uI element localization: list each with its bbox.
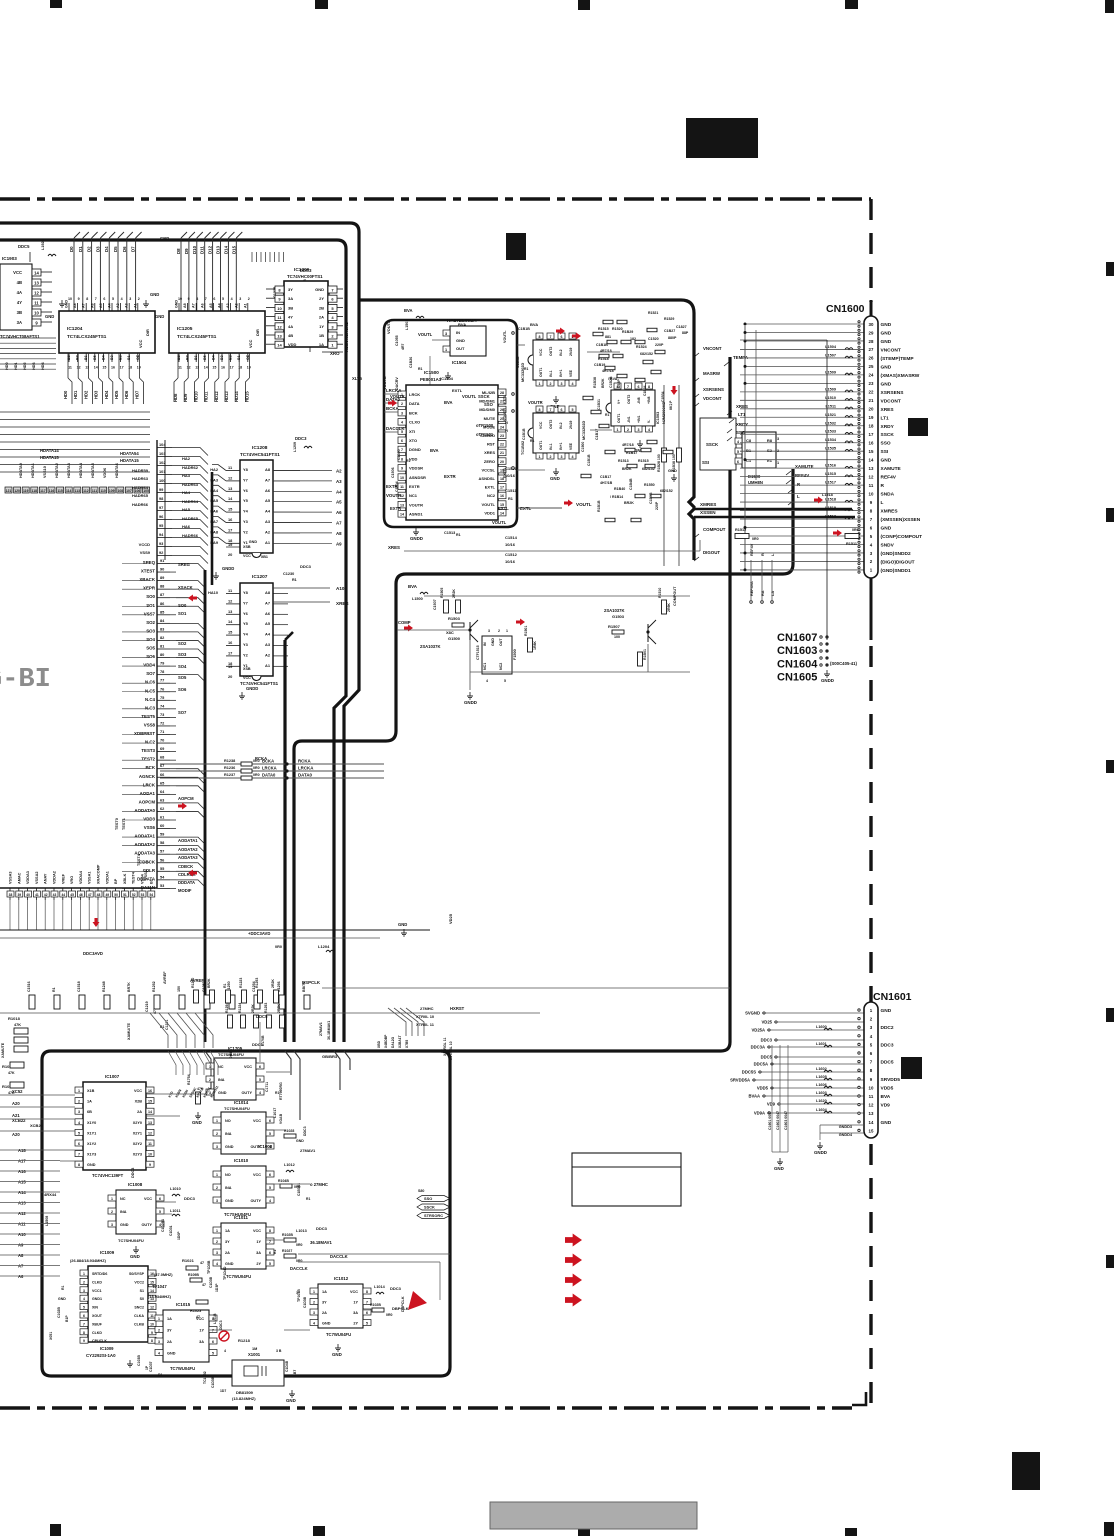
svg-text:TC74VHC541FTS1: TC74VHC541FTS1: [240, 452, 280, 457]
svg-text:21: 21: [869, 398, 874, 403]
svg-text:1D7: 1D7: [220, 1389, 226, 1393]
svg-text:C1516: C1516: [27, 981, 31, 992]
svg-text:L1012: L1012: [284, 1163, 295, 1167]
svg-text:HADR63: HADR63: [132, 476, 149, 481]
svg-text:R102B: R102B: [282, 1233, 293, 1237]
svg-text:R1B40: R1B40: [614, 487, 625, 491]
svg-text:R1018: R1018: [8, 1016, 21, 1021]
svg-text:1: 1: [216, 1229, 218, 1233]
svg-text:A6: A6: [265, 611, 271, 616]
svg-text:12: 12: [869, 474, 874, 479]
svg-text:IC1015: IC1015: [176, 1302, 191, 1307]
svg-text:GND: GND: [491, 638, 495, 646]
svg-text:VCC: VCC: [539, 348, 543, 356]
svg-text:CLXO: CLXO: [409, 420, 420, 425]
svg-text:EXTL: EXTL: [520, 506, 532, 511]
svg-text:HADR59: HADR59: [132, 468, 149, 473]
svg-text:GND: GND: [881, 330, 892, 336]
svg-text:D12: D12: [208, 245, 213, 254]
svg-text:X1Y2: X1Y2: [87, 1142, 96, 1146]
svg-text:MUTE: MUTE: [484, 416, 496, 421]
svg-text:VSSA3: VSSA3: [9, 872, 13, 884]
svg-text:22: 22: [500, 443, 504, 447]
svg-text:PE8001A1: PE8001A1: [420, 377, 442, 382]
svg-text:GNDD4: GNDD4: [839, 1133, 853, 1137]
svg-text:R1: R1: [524, 367, 528, 371]
svg-text:29: 29: [869, 330, 874, 335]
svg-text:VCC: VCC: [244, 1065, 252, 1069]
svg-text:A1: A1: [243, 303, 247, 308]
svg-text:3: 3: [401, 411, 403, 415]
svg-text:RA: RA: [761, 590, 765, 596]
svg-text:R1501: R1501: [524, 626, 528, 636]
svg-text:EXTL: EXTL: [503, 394, 507, 404]
svg-text:L1620: L1620: [816, 1099, 827, 1103]
svg-text:GNDD3: GNDD3: [839, 1125, 852, 1129]
svg-text:DDC2: DDC2: [881, 1025, 894, 1031]
svg-text:1: 1: [83, 1272, 85, 1276]
svg-text:9: 9: [78, 297, 80, 301]
svg-text:17: 17: [230, 366, 234, 370]
svg-text:COMPOUT: COMPOUT: [703, 527, 726, 532]
svg-text:7: 7: [212, 1329, 214, 1333]
svg-text:8: 8: [648, 385, 650, 389]
svg-text:TEST4: TEST4: [137, 853, 141, 866]
svg-text:1: 1: [296, 1291, 298, 1295]
svg-text:2N19: 2N19: [569, 348, 573, 356]
svg-text:12: 12: [277, 324, 282, 329]
svg-text:13: 13: [869, 466, 874, 471]
svg-text:IC1008: IC1008: [128, 1182, 143, 1187]
svg-text:A1: A1: [265, 540, 271, 545]
svg-text:CLKB: CLKB: [134, 1322, 144, 1326]
svg-text:47K: 47K: [8, 1091, 15, 1095]
svg-text:5: 5: [222, 297, 224, 301]
svg-text:27MHC: 27MHC: [420, 1006, 434, 1011]
svg-text:HD2: HD2: [23, 362, 27, 370]
svg-text:UMH8N: UMH8N: [748, 480, 763, 485]
svg-text:0R0: 0R0: [253, 773, 260, 777]
svg-text:CDBCK: CDBCK: [178, 864, 193, 869]
svg-text:2N19: 2N19: [569, 421, 573, 429]
svg-text:6: 6: [159, 1197, 161, 1201]
svg-text:E1: E1: [767, 458, 773, 463]
svg-text:IC1008: IC1008: [258, 1144, 273, 1149]
svg-text:XSSEN: XSSEN: [700, 510, 716, 515]
svg-text:XSB: XSB: [243, 667, 251, 671]
svg-text:HA6: HA6: [182, 524, 191, 529]
svg-text:8: 8: [86, 297, 88, 301]
svg-text:2: 2: [78, 1100, 80, 1104]
svg-text:L: L: [797, 494, 800, 499]
svg-text:CLKD: CLKD: [92, 1280, 102, 1284]
svg-text:A5: A5: [336, 500, 342, 505]
svg-text:4: 4: [224, 1349, 226, 1353]
svg-text:VD9: VD9: [881, 1103, 891, 1109]
svg-text:VEE: VEE: [569, 442, 573, 450]
svg-text:A2: A2: [336, 469, 342, 474]
svg-text:3Y: 3Y: [322, 1301, 327, 1305]
svg-text:A13: A13: [18, 1201, 26, 1206]
svg-text:117: 117: [40, 489, 46, 493]
svg-text:DDC3: DDC3: [295, 436, 307, 441]
svg-text:46: 46: [79, 893, 83, 897]
svg-text:EXTL: EXTL: [452, 388, 463, 393]
svg-text:1: 1: [313, 1290, 315, 1294]
svg-text:XRES: XRES: [881, 407, 895, 413]
svg-text:L1518: L1518: [822, 493, 833, 497]
svg-text:XBLK: XBLK: [123, 873, 127, 884]
svg-text:3A: 3A: [199, 1340, 204, 1344]
svg-text:1Y: 1Y: [319, 324, 324, 329]
svg-text:A2: A2: [265, 652, 271, 657]
svg-text:L170B: L170B: [261, 1035, 265, 1046]
svg-text:VOUTL: VOUTL: [386, 320, 391, 334]
svg-text:VCC2: VCC2: [134, 1280, 144, 1284]
svg-text:20: 20: [869, 407, 874, 412]
svg-text:VOUTR: VOUTR: [409, 502, 423, 507]
svg-text:12: 12: [148, 1131, 152, 1135]
svg-text:LA: LA: [771, 591, 775, 596]
svg-text:50: 50: [114, 893, 118, 897]
svg-text:GND: GND: [286, 1398, 296, 1403]
svg-text:0R0: 0R0: [296, 1243, 302, 1247]
svg-text:HDATA15: HDATA15: [40, 455, 59, 460]
svg-text:INA: INA: [218, 1078, 225, 1082]
svg-text:682/152: 682/152: [640, 352, 653, 356]
svg-text:MD/DM0: MD/DM0: [479, 407, 496, 412]
svg-text:HA9: HA9: [210, 540, 219, 545]
svg-text:X2B: X2B: [135, 1100, 143, 1104]
svg-text:2R2K: 2R2K: [452, 589, 456, 598]
svg-text:D11: D11: [200, 246, 205, 254]
svg-text:1: 1: [617, 428, 619, 432]
svg-text:A6: A6: [336, 510, 342, 515]
svg-text:VDD4: VDD4: [143, 663, 155, 668]
svg-text:VDDA4: VDDA4: [79, 870, 83, 884]
svg-text:HDATA54: HDATA54: [120, 451, 139, 456]
svg-text:SSCK: SSCK: [424, 1205, 435, 1210]
svg-text:3Y: 3Y: [225, 1240, 230, 1244]
svg-text:DIGOUT: DIGOUT: [703, 550, 720, 555]
svg-text:R1550: R1550: [644, 483, 655, 487]
svg-text:16: 16: [148, 1089, 152, 1093]
svg-text:C1514: C1514: [505, 535, 518, 540]
svg-text:INA: INA: [225, 1132, 232, 1136]
svg-text:70: 70: [160, 738, 164, 743]
svg-text:XTR0L 10: XTR0L 10: [416, 1014, 435, 1019]
svg-text:8: 8: [366, 1290, 368, 1294]
svg-text:NC2: NC2: [487, 493, 496, 498]
svg-text:2: 2: [83, 1280, 85, 1284]
svg-text:BR2K: BR2K: [601, 378, 605, 388]
svg-text:HA2: HA2: [210, 467, 219, 472]
svg-text:2: 2: [216, 1186, 218, 1190]
svg-text:VSSA2: VSSA2: [35, 872, 39, 884]
svg-text:A8: A8: [265, 590, 271, 595]
svg-text:19: 19: [137, 366, 141, 370]
svg-text:VNCONT: VNCONT: [881, 347, 901, 353]
svg-text:C1520: C1520: [648, 337, 659, 341]
svg-text:VDCONT: VDCONT: [881, 398, 901, 404]
svg-text:X1Y1: X1Y1: [87, 1131, 96, 1135]
svg-text:6: 6: [78, 1142, 80, 1146]
svg-text:BCK: BCK: [145, 765, 155, 770]
svg-text:HA5: HA5: [182, 507, 191, 512]
svg-text:ASND1: ASND1: [409, 512, 423, 517]
svg-text:4: 4: [121, 297, 123, 301]
svg-text:C1601 0047: C1601 0047: [768, 1111, 772, 1130]
svg-text:8: 8: [151, 1339, 153, 1343]
svg-text:HDATA3: HDATA3: [67, 463, 71, 478]
svg-text:D13: D13: [216, 245, 221, 254]
svg-text:STRSORC: STRSORC: [424, 1213, 443, 1218]
svg-text:NC1: NC1: [409, 493, 418, 498]
svg-text:7: 7: [269, 1240, 271, 1244]
svg-text:X1TRGL 11: X1TRGL 11: [443, 1038, 447, 1056]
svg-text:DATA: DATA: [409, 401, 420, 406]
svg-text:C1B54: C1B54: [643, 385, 647, 396]
svg-text:11: 11: [869, 1094, 874, 1099]
svg-text:HADR64: HADR64: [132, 485, 149, 490]
svg-text:GND: GND: [225, 1199, 234, 1203]
svg-text:C1B1B: C1B1B: [516, 356, 520, 368]
svg-text:IC1903: IC1903: [2, 256, 17, 261]
svg-text:R1B1B: R1B1B: [597, 500, 601, 512]
svg-text:DDC5S: DDC5S: [742, 1070, 756, 1075]
svg-text:A8: A8: [18, 1253, 24, 1258]
svg-text:S0/SYSP: S0/SYSP: [129, 1272, 145, 1276]
svg-text:GND: GND: [160, 236, 169, 241]
svg-text:GND: GND: [322, 1322, 331, 1326]
svg-text:GND: GND: [58, 1297, 66, 1301]
svg-text:11: 11: [178, 366, 182, 370]
svg-text:A5: A5: [209, 303, 213, 308]
svg-text:XAMU/TE: XAMU/TE: [127, 1022, 131, 1040]
svg-text:+IN8: +IN8: [647, 396, 651, 404]
svg-text:(26.884/18.934MHZ): (26.884/18.934MHZ): [70, 1258, 107, 1263]
svg-text:A1: A1: [265, 663, 271, 668]
svg-text:R1223: R1223: [239, 978, 243, 988]
svg-text:6: 6: [561, 335, 563, 339]
svg-text:GND: GND: [398, 922, 407, 927]
svg-text:A10: A10: [336, 586, 345, 591]
svg-text:IN+1: IN+1: [559, 442, 563, 450]
svg-text:10: 10: [150, 1322, 154, 1326]
svg-text:BVA: BVA: [444, 400, 453, 405]
svg-text:LRCKA: LRCKA: [298, 766, 314, 771]
svg-text:NO: NO: [225, 1173, 231, 1177]
svg-text:(STEMP)TEMP: (STEMP)TEMP: [881, 356, 915, 362]
svg-text:SRTD/D6: SRTD/D6: [92, 1272, 107, 1276]
svg-text:121: 121: [6, 489, 12, 493]
svg-text:15: 15: [148, 1100, 152, 1104]
svg-text:1M: 1M: [252, 1347, 257, 1351]
svg-text:R1B38: R1B38: [593, 377, 597, 388]
svg-text:SNDA: SNDA: [881, 492, 895, 498]
svg-text:TEST1: TEST1: [122, 818, 126, 830]
svg-text:R1513: R1513: [618, 459, 629, 463]
svg-text:R1511: R1511: [846, 542, 857, 546]
svg-text:CLKD: CLKD: [92, 1331, 102, 1335]
svg-text:17: 17: [500, 486, 504, 490]
svg-text:4H7/1B: 4H7/1B: [600, 481, 613, 485]
svg-text:SO0: SO0: [178, 603, 187, 608]
svg-text:C1500: C1500: [581, 442, 585, 452]
svg-text:7: 7: [366, 1301, 368, 1305]
svg-text:54: 54: [149, 893, 153, 897]
svg-text:VD9: VD9: [767, 1102, 776, 1107]
svg-text:8: 8: [83, 1331, 85, 1335]
svg-text:VD25: VD25: [762, 1020, 773, 1025]
svg-text:A6: A6: [90, 303, 94, 308]
svg-text:47K: 47K: [8, 1071, 15, 1075]
svg-text:R1: R1: [158, 1373, 162, 1377]
svg-text:R1512: R1512: [735, 528, 746, 532]
svg-text:Y8: Y8: [243, 467, 249, 472]
svg-text:3 B: 3 B: [276, 1349, 282, 1353]
svg-text:X7B5: X7B5: [405, 1040, 409, 1048]
svg-text:C102B: C102B: [57, 1307, 61, 1318]
svg-text:S1: S1: [140, 1289, 144, 1293]
svg-text:IN: IN: [483, 642, 487, 646]
svg-text:XRDY: XRDY: [736, 422, 748, 427]
svg-text:18: 18: [869, 424, 874, 429]
svg-text:27MAV1: 27MAV1: [319, 1022, 323, 1036]
svg-text:DB81509: DB81509: [236, 1390, 254, 1395]
svg-text:VSS9: VSS9: [140, 550, 151, 555]
svg-text:BVA: BVA: [404, 308, 413, 313]
svg-text:NO: NO: [225, 1119, 231, 1123]
svg-text:(DIGO)DIGOUT: (DIGO)DIGOUT: [881, 559, 915, 565]
svg-text:HD7: HD7: [134, 390, 139, 399]
svg-text:27MAV1: 27MAV1: [300, 1148, 316, 1153]
svg-text:RST: RST: [487, 442, 496, 447]
svg-text:R1524: R1524: [636, 345, 647, 349]
svg-text:44: 44: [61, 893, 65, 897]
svg-text:AODA1: AODA1: [140, 791, 156, 796]
svg-text:L1604: L1604: [816, 1108, 828, 1112]
svg-text:AOPCM: AOPCM: [139, 799, 156, 804]
svg-text:REF4V: REF4V: [750, 543, 754, 556]
svg-text:5: 5: [159, 1210, 161, 1214]
svg-text:MC33202D: MC33202D: [521, 363, 525, 382]
svg-text:6: 6: [638, 385, 640, 389]
svg-text:GND: GND: [167, 1352, 176, 1356]
svg-text:SO2: SO2: [146, 620, 155, 625]
svg-text:VCC: VCC: [253, 1229, 261, 1233]
svg-text:LT1: LT1: [881, 415, 890, 421]
svg-text:Y4: Y4: [243, 632, 249, 637]
svg-text:C1D31: C1D31: [169, 1225, 173, 1236]
svg-text:52: 52: [132, 893, 136, 897]
svg-text:C1D3B: C1D3B: [209, 1276, 213, 1288]
svg-text:(CONP)COMPOUT: (CONP)COMPOUT: [881, 534, 923, 540]
svg-text:HDATA14: HDATA14: [40, 448, 59, 453]
svg-text:7: 7: [401, 448, 403, 452]
svg-text:AODATA2: AODATA2: [178, 847, 198, 852]
svg-text:TC7WU04FU: TC7WU04FU: [170, 1366, 195, 1371]
svg-text:XRACOMP: XRACOMP: [97, 864, 101, 884]
svg-text:3Y: 3Y: [288, 287, 293, 292]
svg-text:DATA0: DATA0: [298, 773, 313, 778]
svg-text:4: 4: [486, 679, 488, 683]
svg-text:GND: GND: [120, 1223, 129, 1227]
svg-text:A2: A2: [235, 303, 239, 308]
svg-text:28: 28: [869, 339, 874, 344]
svg-text:SNC2: SNC2: [134, 1306, 144, 1310]
svg-text:EXTL: EXTL: [498, 506, 509, 511]
svg-text:HD0: HD0: [63, 390, 68, 399]
svg-text:XSACK: XSACK: [178, 585, 193, 590]
svg-text:41: 41: [35, 893, 39, 897]
svg-text:IC1014: IC1014: [234, 1100, 249, 1105]
svg-text:R1B29: R1B29: [622, 330, 633, 334]
svg-text:C1B1B: C1B1B: [587, 454, 591, 466]
svg-text:Y8: Y8: [243, 590, 249, 595]
svg-text:VOUTR: VOUTR: [386, 493, 402, 498]
svg-text:2: 2: [138, 297, 140, 301]
svg-text:AODATA1: AODATA1: [134, 834, 155, 839]
svg-text:IC1012: IC1012: [334, 1276, 349, 1281]
svg-text:1: 1: [216, 1119, 218, 1123]
svg-text:VDCONT: VDCONT: [703, 396, 722, 401]
svg-text:17: 17: [228, 527, 232, 532]
svg-text:C1602 0047: C1602 0047: [776, 1111, 780, 1130]
svg-text:INA: INA: [225, 1186, 232, 1190]
svg-text:OUT1: OUT1: [539, 441, 543, 450]
svg-text:DDC3AVD: DDC3AVD: [83, 951, 103, 956]
svg-text:IC1500: IC1500: [424, 370, 439, 375]
svg-text:DDDATA: DDDATA: [178, 880, 195, 885]
svg-text:VDDA3: VDDA3: [26, 871, 30, 884]
svg-text:C1B34: C1B34: [661, 391, 665, 402]
svg-text:12: 12: [187, 366, 191, 370]
svg-text:6: 6: [561, 408, 563, 412]
svg-text:GND: GND: [881, 381, 892, 387]
svg-text:TEST0: TEST0: [115, 818, 119, 830]
svg-text:R1: R1: [508, 497, 513, 501]
svg-text:RCKA: RCKA: [298, 759, 312, 764]
svg-text:5: 5: [269, 1262, 271, 1266]
svg-text:HDATA15: HDATA15: [120, 458, 139, 463]
svg-text:X2BA1T: X2BA1T: [398, 1035, 402, 1048]
svg-text:DDC5: DDC5: [761, 1055, 773, 1060]
svg-text:15: 15: [869, 1128, 874, 1133]
svg-text:VOUTL: VOUTL: [418, 332, 433, 337]
svg-text:LRCKA: LRCKA: [386, 388, 402, 393]
svg-text:OUTY: OUTY: [250, 1199, 261, 1203]
svg-text:IC1010: IC1010: [234, 1158, 249, 1163]
svg-text:A6: A6: [18, 1274, 24, 1279]
svg-text:3: 3: [445, 332, 447, 336]
svg-text:C1511: C1511: [505, 488, 517, 493]
svg-text:9: 9: [188, 297, 190, 301]
svg-text:1A: 1A: [87, 1100, 92, 1104]
svg-text:HA4: HA4: [210, 488, 219, 493]
svg-text:XAMUTE: XAMUTE: [1, 1042, 5, 1058]
svg-text:R1028: R1028: [284, 1129, 294, 1133]
svg-text:3B: 3B: [288, 305, 293, 310]
svg-text:0R0: 0R0: [296, 1259, 302, 1263]
svg-text:DGND: DGND: [409, 447, 421, 452]
svg-text:MASRW: MASRW: [703, 371, 721, 376]
svg-text:C1D2B1: C1D2B1: [161, 1219, 165, 1232]
svg-text:IC1205: IC1205: [177, 326, 193, 332]
svg-text:19: 19: [247, 366, 251, 370]
svg-text:B5: B5: [203, 355, 207, 360]
svg-text:108: 108: [117, 489, 123, 493]
